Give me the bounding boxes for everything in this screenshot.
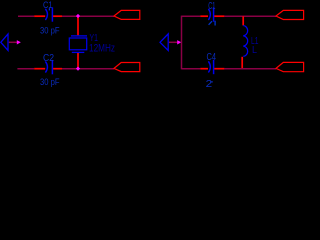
svg-text:C4: C4 xyxy=(207,51,217,63)
port XTAL2 (flag) xyxy=(114,63,140,72)
svg-text:C1: C1 xyxy=(208,0,215,12)
capacitor C4 xyxy=(206,51,217,90)
junction node XTAL1 xyxy=(76,14,80,18)
wire top rail to port xyxy=(224,15,276,17)
port EXT (right sheet entry triangle) xyxy=(160,34,168,51)
wire bottom rail (right circuit) xyxy=(182,68,201,70)
svg-text:12MHz: 12MHz xyxy=(89,42,115,54)
capacitor C4 pin 2 xyxy=(214,68,224,70)
port XTAL1 (flag) xyxy=(114,10,140,19)
port XTAL1b (flag top right) xyxy=(276,10,304,19)
capacitor C1 xyxy=(40,0,60,35)
capacitor C4 pin 1 xyxy=(200,68,208,70)
capacitor C2 pin 2 xyxy=(53,68,62,70)
wire down to inductor xyxy=(242,16,244,25)
wire bottom rail to port xyxy=(224,68,276,70)
capacitor C2 pin 1 xyxy=(34,68,45,70)
crystal Y1 xyxy=(69,33,115,54)
arrowhead xyxy=(17,40,21,44)
junction node XTAL2 xyxy=(76,67,80,71)
wire bottom rail right xyxy=(62,68,114,70)
svg-text:30 pF: 30 pF xyxy=(40,25,60,35)
capacitor C3 pin 2 xyxy=(214,15,224,17)
svg-text:C2: C2 xyxy=(43,53,54,64)
wire top rail right xyxy=(62,15,114,17)
capacitor C1 pin 2 xyxy=(53,15,62,17)
svg-text:C1: C1 xyxy=(43,0,53,11)
wire top rail left xyxy=(18,15,34,17)
capacitor C2 xyxy=(40,53,60,87)
arrowhead at bus xyxy=(177,40,181,44)
svg-text:L: L xyxy=(252,45,257,56)
wire crystal to bottom junction xyxy=(77,53,79,68)
wire arrow from port IN xyxy=(9,41,17,43)
wire bottom rail left xyxy=(17,68,34,70)
inductor L1 xyxy=(243,26,258,57)
port XTAL2b (flag bottom right) xyxy=(276,62,304,71)
wire arrow from port EXT xyxy=(169,41,178,43)
port IN (left sheet entry triangle) xyxy=(1,34,8,50)
capacitor C3 pin 1 xyxy=(200,15,208,17)
wire inductor to bottom rail xyxy=(241,57,243,69)
svg-text:30 pF: 30 pF xyxy=(40,77,60,87)
capacitor C1 pin 1 xyxy=(34,15,45,17)
capacitor C3 xyxy=(208,0,215,26)
svg-text:2: 2 xyxy=(206,79,213,89)
wire vertical bus xyxy=(181,16,183,70)
wire top rail (right circuit) xyxy=(182,15,201,17)
wire junction to crystal xyxy=(77,16,79,35)
